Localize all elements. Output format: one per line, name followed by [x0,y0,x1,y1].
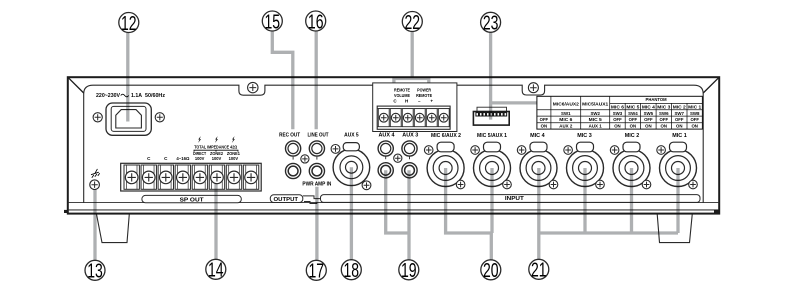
svg-text:23: 23 [483,11,499,34]
svg-text:1.1A: 1.1A [131,93,142,99]
svg-text:AUX 3: AUX 3 [402,133,418,139]
svg-text:MIC 6: MIC 6 [611,105,625,110]
svg-text:ON: ON [645,123,652,128]
svg-text:ON: ON [691,123,698,128]
svg-text:22: 22 [405,10,421,33]
svg-text:50/60Hz: 50/60Hz [145,93,165,99]
svg-text:PWR AMP IN: PWR AMP IN [302,182,331,188]
svg-text:100V: 100V [229,156,239,161]
svg-text:OFF: OFF [613,117,622,122]
svg-text:ON: ON [541,123,548,128]
svg-text:POWER: POWER [417,88,432,93]
svg-text:VOLUME: VOLUME [394,93,410,98]
svg-text:MIC 1: MIC 1 [672,133,687,139]
svg-text:AUX 1: AUX 1 [589,123,603,128]
svg-text:SW8: SW8 [690,111,700,116]
svg-text:100V: 100V [212,156,222,161]
svg-text:REC OUT: REC OUT [279,133,301,139]
svg-text:ON: ON [661,123,668,128]
svg-text:SW7: SW7 [675,111,685,116]
svg-text:REMOTE: REMOTE [394,88,410,93]
svg-text:OFF: OFF [660,117,669,122]
svg-text:MIC 2: MIC 2 [673,105,687,110]
svg-text:AUX 2: AUX 2 [559,123,573,128]
svg-text:OFF: OFF [644,117,653,122]
svg-text:PHANTOM: PHANTOM [646,97,667,102]
svg-text:INPUT: INPUT [505,196,525,202]
svg-text:16: 16 [308,10,324,33]
svg-text:REMOTE: REMOTE [416,93,432,98]
svg-text:17: 17 [309,259,325,282]
svg-text:SW5: SW5 [644,111,654,116]
svg-text:4~16Ω: 4~16Ω [176,156,189,161]
svg-text:100V: 100V [195,156,205,161]
svg-text:MIC 3: MIC 3 [577,133,592,139]
svg-text:220~230V: 220~230V [96,93,120,99]
svg-text:14: 14 [208,258,224,281]
svg-text:OFF: OFF [690,117,699,122]
svg-text:LINE OUT: LINE OUT [308,133,330,139]
svg-text:ON: ON [630,123,637,128]
svg-text:ON: ON [614,123,621,128]
svg-text:20: 20 [483,259,499,282]
svg-text:MIC6/AUX2: MIC6/AUX2 [553,101,580,106]
svg-text:SW4: SW4 [628,111,638,116]
svg-text:MIC 2: MIC 2 [625,133,640,139]
svg-text:MIC5/AUX1: MIC5/AUX1 [582,101,609,106]
svg-text:SW1: SW1 [561,111,571,116]
svg-text:H: H [405,99,408,104]
svg-text:SP OUT: SP OUT [180,197,205,203]
svg-text:MIC 5: MIC 5 [589,117,603,122]
svg-text:19: 19 [401,259,417,282]
svg-text:MIC 4: MIC 4 [642,105,656,110]
svg-text:MIC 3: MIC 3 [657,105,671,110]
svg-text:OFF: OFF [675,117,684,122]
svg-text:15: 15 [265,10,281,33]
svg-text:MIC 6: MIC 6 [559,117,573,122]
svg-text:+: + [430,99,433,104]
svg-text:OFF: OFF [540,117,549,122]
svg-text:SW6: SW6 [659,111,669,116]
svg-text:MIC 6/AUX 2: MIC 6/AUX 2 [431,133,461,139]
svg-text:21: 21 [531,258,547,281]
svg-text:OUTPUT: OUTPUT [274,197,299,203]
svg-text:AUX 4: AUX 4 [379,133,395,139]
svg-text:MIC 1: MIC 1 [688,105,702,110]
svg-text:MIC 5: MIC 5 [626,105,640,110]
svg-text:TOTAL IMPEDANCE 42Ω: TOTAL IMPEDANCE 42Ω [194,145,237,150]
svg-text:SW3: SW3 [613,111,623,116]
svg-text:MIC 4: MIC 4 [530,133,545,139]
svg-text:12: 12 [121,11,137,34]
svg-text:AUX 5: AUX 5 [344,132,359,138]
svg-text:OFF: OFF [629,117,638,122]
svg-text:ON: ON [676,123,683,128]
svg-text:13: 13 [87,259,103,282]
svg-text:MIC 5/AUX 1: MIC 5/AUX 1 [477,133,507,139]
svg-text:18: 18 [344,258,360,281]
svg-text:SW2: SW2 [590,111,600,116]
